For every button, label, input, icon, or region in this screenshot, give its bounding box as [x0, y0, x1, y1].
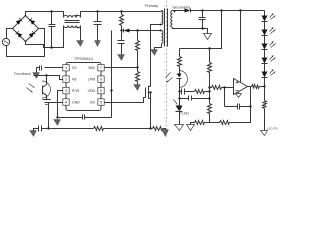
node op-amp inverting: [223, 86, 225, 88]
svg-text:LPM: LPM: [88, 77, 95, 81]
svg-text:Primary: Primary: [145, 4, 158, 8]
node bridge bottom: [25, 41, 27, 43]
node MOSFET body-source: [149, 91, 151, 93]
node comp lower left: [178, 97, 180, 99]
wire op-amp ground: [238, 92, 240, 94]
diode D2 bias rectifier: [122, 29, 162, 33]
node pin6 junction: [110, 89, 112, 91]
LED D6: [262, 30, 268, 44]
wire source to rail: [150, 93, 152, 129]
wire output rail: [191, 10, 265, 12]
wire secondary top: [173, 10, 185, 12]
optocoupler Q1 phototransistor: [42, 76, 51, 100]
wire comp bottom to column: [230, 107, 251, 123]
wire to ground 2: [191, 123, 195, 125]
node comp upper right: [208, 90, 210, 92]
wire POS pin to CS node: [58, 91, 63, 118]
node divider tap: [220, 9, 222, 11]
resistor R2 bias upper: [136, 31, 140, 68]
node bias diode: [136, 29, 138, 31]
node R1 top: [120, 10, 122, 12]
wire drain: [151, 25, 162, 87]
node comp lower right: [208, 97, 210, 99]
resistor R3 bias lower: [136, 68, 140, 85]
capacitor C6 bottom left: [37, 126, 49, 132]
svg-text:4: 4: [65, 100, 67, 104]
wire feedback to FB pin: [34, 76, 63, 80]
diode D3 output rectifier: [185, 9, 191, 13]
op-amp U3: [234, 79, 248, 95]
node C1 top: [50, 10, 52, 12]
wire divider bottom right: [210, 122, 220, 124]
wire divider feed: [180, 11, 222, 49]
transformer T1 primary winding: [162, 11, 163, 25]
resistor R6 opto bias: [178, 49, 182, 71]
wire AC return: [7, 29, 45, 57]
wire feedback riser: [250, 87, 252, 107]
svg-text:VBD: VBD: [88, 66, 96, 70]
wire GND pin down: [49, 103, 63, 129]
svg-text:VDD: VDD: [88, 89, 96, 93]
svg-text:TPS92613: TPS92613: [74, 56, 94, 61]
svg-text:6: 6: [100, 89, 102, 93]
svg-text:5: 5: [100, 100, 102, 104]
node opto cathode: [178, 90, 180, 92]
resistor R5 sense: [153, 127, 163, 131]
resistor R1 startup: [120, 12, 124, 31]
LED D8 arrows: [270, 56, 276, 62]
node VDD supply: [120, 29, 122, 31]
capacitor C7 output: [199, 11, 206, 29]
ground CS (arrow): [54, 120, 61, 126]
svg-text:GND: GND: [72, 100, 80, 104]
svg-text:1: 1: [65, 66, 67, 70]
IC U1 controller: [63, 56, 104, 110]
svg-text:2: 2: [65, 78, 67, 82]
svg-text:ILED RTN: ILED RTN: [267, 127, 278, 130]
node LED sense: [263, 85, 265, 87]
ground C3 (arrow): [118, 55, 125, 61]
capacitor C9 comp lower: [180, 96, 210, 101]
wire bottom rail: [49, 128, 94, 130]
svg-text:TL431: TL431: [180, 111, 189, 115]
capacitor C8 comp upper: [180, 89, 195, 95]
node C2 top: [96, 10, 98, 12]
capacitor C3 VDD: [118, 31, 125, 55]
node primary finish: [160, 24, 162, 26]
node return cap: [201, 27, 203, 29]
wire choke lower right to ground: [80, 26, 82, 41]
svg-text:POS: POS: [72, 89, 80, 93]
resistor R11 comp bottom: [220, 121, 230, 125]
wire op-amp feedback: [224, 88, 226, 107]
svg-text:FB: FB: [72, 77, 77, 81]
node CS filter: [56, 116, 58, 118]
wire AC hot to bridge: [7, 29, 13, 39]
svg-text:SS: SS: [72, 66, 77, 70]
wire LED string bottom: [264, 78, 266, 87]
capacitor C10 comp: [225, 104, 251, 110]
wire to LED node: [260, 86, 265, 88]
shunt regulator U2 TL431: [174, 92, 183, 125]
wire op-amp output: [248, 86, 252, 88]
resistor R12 op-amp input: [210, 86, 234, 90]
resistor R4 CS: [94, 127, 104, 131]
wire secondary return: [173, 28, 208, 34]
LED D5: [262, 16, 268, 30]
wire DC- rail: [26, 26, 64, 48]
ground bias (arrow): [151, 50, 158, 56]
wire DC+ rail: [26, 12, 64, 18]
node op-amp supply: [239, 9, 241, 11]
wire divider bottom left: [205, 122, 210, 124]
wire LED string top: [264, 11, 266, 16]
node bias start: [160, 30, 162, 32]
LED D8: [262, 58, 268, 72]
svg-text:7: 7: [100, 66, 102, 70]
wire GD pin to gate: [105, 98, 146, 103]
capacitor C1 bulk: [49, 12, 56, 48]
resistor R14 LED sense: [263, 87, 267, 131]
node GND rail: [47, 127, 49, 129]
transistor Q2 MOSFET: [146, 86, 151, 99]
LED D5 arrows: [270, 14, 276, 20]
ground divider (open): [187, 125, 195, 131]
ground C4 (arrow): [33, 73, 40, 79]
ground op-amp (open): [236, 94, 242, 98]
ground LED (open): [261, 131, 268, 136]
node op-amp input tap: [208, 86, 210, 88]
wire VDD column: [111, 31, 113, 118]
capacitor C4 soft-start: [37, 66, 63, 73]
LED D9: [262, 72, 268, 78]
ground choke (arrow): [77, 41, 84, 47]
svg-text:8: 8: [100, 78, 102, 82]
wire comp upper: [205, 91, 210, 93]
node bridge top: [25, 15, 27, 17]
resistor R9 divider lower: [208, 104, 212, 123]
opto LED arrows: [166, 73, 173, 83]
resistor R7 comp upper: [195, 90, 205, 94]
LED D7 arrows: [270, 42, 276, 48]
node C1 bottom: [50, 46, 52, 48]
node source sense: [149, 127, 151, 129]
capacitor C2 filter: [94, 12, 102, 41]
ground sense (arrow): [162, 129, 169, 137]
wire DC+ rail after choke: [81, 12, 162, 18]
common-mode choke L1: [64, 15, 81, 29]
wire R5 stub: [151, 128, 153, 130]
wire pin7 to bias divider: [105, 67, 138, 69]
node secondary start: [174, 11, 176, 13]
LED D6 arrows: [270, 28, 276, 34]
svg-text:Feedback: Feedback: [14, 71, 31, 76]
node opto collector: [45, 74, 47, 76]
node comp column mid: [249, 105, 251, 107]
capacitor C5 CS filter: [58, 115, 112, 120]
ground opto emitter (earth): [43, 100, 51, 105]
transformer T1 bias winding: [162, 31, 164, 44]
resistor R8 divider upper: [208, 49, 212, 104]
wire bias return: [155, 44, 162, 50]
node divider top: [208, 47, 210, 49]
transformer T1 secondary winding: [171, 11, 173, 28]
LED D7: [262, 44, 268, 58]
wire bottom rail to source: [104, 128, 151, 130]
svg-text:Secondary: Secondary: [172, 6, 190, 10]
resistor R13 output: [252, 85, 260, 89]
node output cap: [201, 9, 203, 11]
AC source V1: [2, 38, 9, 45]
optocoupler D4 LED: [177, 71, 188, 92]
LED D9 arrows: [270, 70, 276, 76]
ground secondary (open): [204, 34, 212, 40]
ground C2 (arrow): [95, 41, 101, 47]
isolation dashed line: [166, 1, 168, 138]
ground R3 (arrow): [134, 85, 141, 91]
ground C6 (arrow): [30, 129, 37, 137]
wire op-amp supply: [240, 11, 242, 83]
resistor R10 lower left: [195, 121, 205, 125]
opto light arrows: [27, 84, 35, 93]
node pin7 junction: [136, 66, 138, 68]
transformer T1 core: [165, 9, 168, 47]
svg-text:3: 3: [65, 89, 67, 93]
bridge rectifier: [13, 16, 39, 42]
svg-text:GD: GD: [90, 100, 96, 104]
ground TL431 (open): [175, 125, 184, 131]
